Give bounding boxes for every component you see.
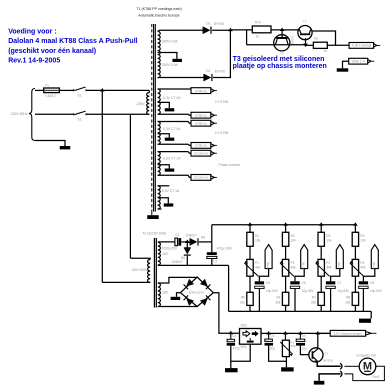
svg-text:33k: 33k	[275, 300, 281, 304]
svg-text:Fan1: Fan1	[372, 375, 379, 379]
svg-text:C1: C1	[175, 233, 179, 237]
svg-text:Rev.1 14-9-2005: Rev.1 14-9-2005	[8, 57, 60, 64]
wire C2 top stub	[211, 242, 213, 252]
svg-text:C4: C4	[270, 334, 274, 338]
wire pot to R5	[249, 276, 251, 292]
transformer T1 heater winding 6,3V CT 1A (4)	[158, 186, 161, 209]
transformer T1 core	[153, 24, 155, 212]
connector bias test point ch1	[265, 245, 272, 269]
wire bias negative rail	[212, 224, 356, 226]
node D6 tap	[185, 240, 190, 244]
wire T3 base stub	[305, 38, 307, 45]
svg-text:R3: R3	[326, 234, 330, 238]
svg-text:330V 0,9A: 330V 0,9A	[162, 40, 179, 44]
svg-text:Computer Fan: Computer Fan	[356, 353, 377, 357]
svg-text:C5: C5	[266, 281, 270, 285]
resistor R8 33k	[352, 292, 358, 305]
wire C8 to gnd rail	[362, 288, 364, 311]
wire L from brace to fuse	[35, 89, 44, 91]
svg-text:33k: 33k	[345, 300, 351, 304]
ground 330V center tap	[172, 59, 182, 62]
wire heater3 top to arrow	[158, 152, 191, 154]
connector GND output arrow	[349, 58, 368, 64]
svg-text:12V hulpspanningen: 12V hulpspanningen	[334, 332, 362, 336]
svg-text:1k: 1k	[324, 49, 328, 53]
wire R8 to output	[327, 44, 349, 46]
node L junction	[100, 88, 105, 92]
capacitor C7 10u 63V	[326, 281, 335, 284]
wire D8 to bias node	[199, 241, 212, 243]
svg-text:10µ 63V: 10µ 63V	[370, 289, 383, 293]
svg-text:plaatje op chassis monteren: plaatje op chassis monteren	[233, 63, 327, 70]
wire heater2 top to arrow	[158, 122, 191, 124]
node HT junction	[228, 28, 233, 32]
diode D2 BYV96	[203, 74, 204, 81]
resistor R4 10k	[354, 225, 356, 233]
svg-text:P3: P3	[326, 261, 330, 265]
resistor R2 10k	[285, 225, 287, 233]
wire base feed drop	[246, 30, 248, 45]
bridge diode lower-left	[183, 295, 194, 306]
transformer T1 heater winding 6,3V CT 4A (1)	[158, 89, 161, 114]
transformer T1 heater winding 6,3V CT 4A (2)	[158, 122, 161, 145]
svg-text:R7: R7	[312, 296, 316, 300]
wire VR1 out rail	[261, 332, 331, 334]
ground heater4 CT	[164, 203, 174, 206]
wire D1 to node HT	[212, 29, 230, 31]
svg-text:10µ 63V: 10µ 63V	[302, 289, 315, 293]
bridge rectifier B40C1500 outline	[180, 277, 213, 307]
node bias rail junction ch1	[248, 222, 253, 226]
svg-text:ECC99 (4): ECC99 (4)	[194, 152, 208, 156]
svg-text:ECC99 (4): ECC99 (4)	[194, 176, 208, 180]
svg-text:10k: 10k	[291, 239, 297, 243]
wire pot to R6	[285, 276, 287, 292]
svg-text:+UB 1 kanaal: +UB 1 kanaal	[351, 44, 371, 48]
svg-text:Phase inverter: Phase inverter	[219, 163, 242, 167]
transformer T2 secondary 18V (2)	[158, 283, 161, 306]
svg-text:Dalolan 4 maal KT88 Class A Pu: Dalolan 4 maal KT88 Class A Push-Pull	[8, 38, 137, 45]
ground bridge left vertex	[171, 297, 181, 300]
svg-text:Voeding voor :: Voeding voor :	[8, 29, 56, 36]
potentiometer P2	[282, 259, 288, 276]
wire test point to wiper node	[331, 269, 340, 282]
wire C7 to gnd rail	[330, 288, 332, 311]
svg-text:R4: R4	[360, 234, 364, 238]
switch S1a	[74, 87, 85, 91]
transistor T1 BD139	[309, 348, 323, 362]
svg-text:P4: P4	[360, 261, 364, 265]
potentiometer P3	[318, 259, 324, 276]
connector ECC99 heater arrow 5	[191, 150, 211, 156]
transistor T3 (driver, upper)	[298, 25, 312, 39]
svg-text:2 x KT88: 2 x KT88	[215, 131, 229, 135]
wire gnd rail to ground	[370, 311, 372, 318]
wire R6 to gnd rail	[285, 305, 287, 311]
node collector junction	[316, 331, 321, 335]
svg-text:33k: 33k	[311, 300, 317, 304]
svg-text:10k: 10k	[326, 239, 332, 243]
wire T1 emitter to fan pin	[317, 362, 340, 367]
wire T2 sec2 bottom to bridge	[158, 306, 197, 308]
node bias rail junction ch4	[353, 222, 358, 226]
wire T1 collector	[317, 333, 319, 348]
capacitor C8 10u 63V	[359, 281, 368, 284]
ground fan	[314, 381, 325, 385]
svg-text:6,3V CT 4A: 6,3V CT 4A	[163, 127, 181, 131]
svg-text:T1 (KT88 PP voedings trafo): T1 (KT88 PP voedings trafo)	[136, 7, 181, 11]
wire switch to node L	[86, 89, 102, 91]
connector KT88 heater arrow 3	[191, 120, 211, 126]
svg-text:(geschikt voor één kanaal): (geschikt voor één kanaal)	[8, 48, 96, 55]
resistor R7 33k	[318, 292, 324, 305]
svg-text:2 x KT88: 2 x KT88	[215, 100, 229, 104]
wire base node to R8	[306, 44, 314, 46]
motor M computer fan	[359, 358, 376, 375]
capacitor C6 10u 63V	[290, 281, 299, 284]
svg-text:C8: C8	[370, 281, 374, 285]
wire pot P5 bottom to ground	[285, 357, 287, 368]
transformer T2 primary	[148, 260, 151, 283]
svg-text:18V: 18V	[162, 290, 169, 294]
svg-text:R70: R70	[255, 20, 261, 24]
wire heater2 CT	[158, 134, 170, 138]
svg-text:C6: C6	[302, 334, 306, 338]
capacitor C5 10u 63V	[255, 281, 264, 284]
bridge diode upper-right	[200, 279, 211, 290]
svg-text:6,3V CT 1A: 6,3V CT 1A	[163, 157, 181, 161]
node pot P5 junction	[283, 331, 288, 335]
svg-text:T1: T1	[325, 351, 329, 355]
wire heater2 bottom to arrow	[158, 144, 191, 145]
regulator VR1 7812	[240, 329, 262, 345]
potentiometer P4	[352, 259, 358, 276]
capacitor C1 1000u 50V	[175, 238, 178, 246]
resistor R3 10k	[320, 225, 322, 233]
svg-text:R8: R8	[314, 37, 318, 41]
svg-text:BD139: BD139	[324, 359, 334, 363]
wire pot to R8	[354, 276, 356, 292]
wire 330V bottom to D2	[158, 77, 205, 79]
wire R5 to gnd rail	[249, 305, 251, 311]
wire pot to R7	[320, 276, 322, 292]
wire bias lower rail	[158, 264, 229, 266]
wire bias ground rail	[229, 310, 372, 312]
svg-text:T2 (2x18V 6VA): T2 (2x18V 6VA)	[142, 231, 166, 235]
connector KT88 heater arrow 4	[191, 143, 211, 149]
transistor T2 (pass, lower)	[274, 35, 290, 51]
svg-text:B40C1500: B40C1500	[189, 290, 204, 294]
svg-text:2N3055: 2N3055	[291, 35, 295, 45]
connector bias test point ch4	[371, 245, 378, 269]
wire test point to wiper node	[259, 269, 268, 282]
svg-text:C7: C7	[337, 281, 341, 285]
fuse F1	[44, 88, 60, 93]
potentiometer P1	[247, 259, 253, 276]
svg-text:D2: D2	[206, 69, 210, 73]
svg-text:KT88 (2): KT88 (2)	[195, 89, 207, 93]
wire T2 sec1 top to C1	[158, 241, 175, 243]
transformer T2 core	[153, 238, 155, 308]
svg-text:6,3V CT 4A: 6,3V CT 4A	[163, 96, 181, 100]
svg-text:470µ 100V: 470µ 100V	[217, 247, 233, 251]
svg-text:KT88: KT88	[266, 262, 270, 269]
wire emitter chord	[247, 44, 306, 46]
wire motor return	[344, 366, 384, 380]
wire L to T1 primary top	[102, 89, 149, 91]
wire heater4 bottom stub	[158, 208, 162, 210]
svg-text:T2: T2	[280, 51, 284, 55]
wire bias node up to bias rail	[211, 225, 213, 242]
svg-text:6,3V CT 1A: 6,3V CT 1A	[162, 189, 180, 193]
wire D2 to HT rail	[213, 30, 231, 77]
ground heater3 CT	[165, 169, 175, 172]
svg-text:KT88 (2): KT88 (2)	[195, 144, 207, 148]
diode D8 1N4007	[190, 238, 191, 245]
node C4 junction	[266, 331, 271, 335]
wire C3 to ground	[230, 346, 232, 368]
svg-text:KT88: KT88	[372, 262, 376, 269]
ground heater1 CT	[165, 108, 175, 111]
svg-text:R5: R5	[241, 296, 245, 300]
ground T1 core screen	[147, 215, 159, 219]
wire N tap down to T2	[129, 114, 131, 258]
resistor R8 (regulator)	[313, 42, 327, 48]
wire test point to wiper node	[363, 269, 374, 282]
svg-text:KT88: KT88	[337, 262, 341, 269]
ground heater2 CT	[165, 138, 175, 141]
svg-text:10µ 63V: 10µ 63V	[266, 289, 279, 293]
svg-text:0,63A T: 0,63A T	[45, 94, 56, 98]
capacitor C2 470u 100V	[207, 252, 217, 255]
svg-text:BYV96: BYV96	[215, 69, 225, 73]
svg-text:10µ 63V: 10µ 63V	[337, 289, 350, 293]
svg-text:D8: D8	[201, 236, 205, 240]
svg-text:R2: R2	[291, 234, 295, 238]
svg-text:R8: R8	[346, 296, 350, 300]
wire bridge output	[213, 293, 239, 334]
wire C6 to gnd rail	[294, 288, 296, 311]
diode D1 BYV96	[203, 27, 204, 34]
wire bridge left to ground	[177, 293, 181, 297]
ground C3	[225, 368, 238, 372]
wire heater1 CT	[158, 102, 170, 108]
wire lower rail down to gnd rail	[228, 265, 230, 311]
transformer T1 secondary 330V winding	[158, 31, 161, 77]
switch S1b	[74, 111, 85, 115]
wire heater4 CT	[158, 198, 169, 204]
wire R8 to gnd rail	[354, 305, 356, 311]
svg-text:7812: 7812	[240, 324, 247, 328]
potentiometer P5 10k	[284, 333, 286, 340]
svg-text:D1: D1	[206, 22, 210, 26]
svg-text:18V: 18V	[162, 252, 169, 256]
svg-text:BYV96: BYV96	[214, 22, 224, 26]
wire rail to 12V arrow	[318, 332, 331, 334]
svg-text:230V 50Hz: 230V 50Hz	[132, 268, 149, 272]
svg-text:P2: P2	[291, 261, 295, 265]
wire heater3 bottom to arrow	[158, 175, 191, 177]
resistor R5 33k	[247, 292, 253, 305]
connector KT88 heater arrow 2	[191, 112, 211, 118]
transformer T1 primary 230V	[147, 93, 150, 115]
wire test point to wiper node	[295, 269, 304, 282]
svg-text:40k: 40k	[360, 266, 366, 270]
svg-text:1N4007: 1N4007	[172, 260, 183, 264]
wire GND arrow to ground	[343, 61, 349, 68]
svg-text:KT88 (2): KT88 (2)	[195, 122, 207, 126]
connector fan pin 2	[340, 371, 342, 377]
svg-text:C3: C3	[232, 334, 236, 338]
wire fuse to switch	[59, 89, 73, 91]
svg-text:10k: 10k	[255, 239, 261, 243]
svg-text:1N4007: 1N4007	[186, 233, 197, 237]
wire N to T1 primary bottom	[86, 113, 149, 115]
svg-text:KT88 (2): KT88 (2)	[195, 114, 207, 118]
bridge diode lower-right	[200, 295, 211, 306]
ground of GND connector	[337, 68, 349, 71]
svg-text:10µ: 10µ	[302, 347, 307, 351]
connector +UB output arrow	[349, 43, 374, 49]
svg-text:230V: 230V	[137, 102, 146, 106]
node C5reg junction	[298, 331, 303, 335]
ground mains PE	[60, 146, 71, 149]
wire HT to R70	[230, 29, 252, 31]
svg-text:VR1: VR1	[240, 345, 246, 349]
capacitor C6reg 10u	[299, 333, 301, 339]
wire fan pin2 to ground	[319, 374, 341, 381]
bridge diode upper-left	[183, 279, 194, 290]
wire C5 to gnd rail	[258, 288, 260, 311]
svg-text:R1: R1	[255, 234, 259, 238]
svg-text:C6: C6	[302, 281, 306, 285]
svg-text:C2: C2	[213, 260, 217, 264]
ground bias rail	[359, 319, 371, 323]
wire C4 down	[269, 346, 287, 362]
connector ECC99 heater arrow 6	[191, 175, 211, 181]
wire 330V center tap	[158, 53, 177, 59]
wire T2 primary top feed	[130, 258, 150, 259]
wire PE to ground	[35, 141, 65, 147]
wire N from brace	[35, 113, 73, 115]
svg-text:S1: S1	[78, 118, 82, 122]
svg-text:R6: R6	[276, 296, 280, 300]
svg-text:330V 0,9A: 330V 0,9A	[162, 63, 179, 67]
capacitor C4 100u	[268, 333, 270, 339]
svg-text:470µ: 470µ	[233, 346, 240, 350]
wire R2 to pot	[285, 246, 287, 260]
svg-text:1k: 1k	[256, 34, 260, 38]
svg-text:P1: P1	[255, 261, 259, 265]
resistor R6 33k	[282, 292, 288, 305]
connector bias test point ch2	[301, 245, 308, 269]
svg-text:KT88: KT88	[302, 262, 306, 269]
connector 12V hulpspanningen arrow	[330, 330, 365, 336]
svg-text:230V 50Hz: 230V 50Hz	[11, 112, 28, 116]
wire D6 to lower rail	[186, 256, 188, 266]
svg-text:10k: 10k	[360, 239, 366, 243]
wire R1 to pot	[249, 246, 251, 260]
wire T2 primary bottom feed	[102, 281, 150, 283]
transformer T1 heater winding 6,3V CT 1A (3)	[158, 152, 161, 176]
svg-text:F1: F1	[45, 84, 49, 88]
wire heater1 bottom to arrow	[158, 113, 191, 116]
node T3 base junction	[303, 44, 308, 48]
svg-text:T3: T3	[303, 19, 307, 23]
wire L down to T2	[101, 90, 103, 282]
svg-text:GND 1-4: GND 1-4	[352, 60, 365, 64]
wire C1 to D8	[181, 241, 190, 243]
connector KT88 heater arrow 1	[191, 88, 211, 94]
ground C4/P5	[281, 367, 294, 371]
svg-text:Automatic Electric Europe: Automatic Electric Europe	[138, 13, 179, 17]
wire R4 to pot	[354, 246, 356, 260]
wire heater1 top to arrow	[158, 88, 191, 90]
wire R70 to T3 base node	[271, 29, 300, 31]
transformer T2 secondary 18V (1)	[158, 242, 161, 265]
wire heater4 top stub	[158, 185, 170, 187]
resistor R1 10k	[249, 225, 251, 233]
node T2 top stub	[280, 28, 285, 32]
node bias rail junction ch2	[283, 222, 288, 226]
node bias rail junction ch3	[319, 222, 324, 226]
svg-text:33k: 33k	[240, 300, 246, 304]
svg-text:40k: 40k	[255, 266, 261, 270]
svg-text:T3 geisoleerd met siliconen: T3 geisoleerd met siliconen	[233, 56, 325, 63]
diode D6 1N4007	[186, 242, 188, 249]
node C3 junction	[229, 331, 234, 335]
svg-text:S1: S1	[78, 94, 82, 98]
svg-text:1000µ 50V: 1000µ 50V	[162, 247, 178, 251]
svg-text:40k: 40k	[291, 266, 297, 270]
wire R3 to pot	[320, 246, 322, 260]
wire T3 emitter out	[312, 31, 336, 45]
wire heater3 CT	[158, 165, 170, 169]
svg-text:40k: 40k	[326, 266, 332, 270]
resistor R70	[252, 26, 271, 33]
capacitor C3 470u	[230, 333, 232, 339]
wire R7 to gnd rail	[320, 305, 322, 311]
wire VR1 gnd pin	[231, 344, 250, 361]
wire C2 bottom stub	[211, 259, 213, 266]
svg-text:10k: 10k	[291, 344, 296, 348]
wire fan pin1 to motor	[344, 365, 359, 367]
wire C6 to base	[300, 346, 309, 355]
connector fan pin 1	[340, 363, 342, 369]
wire T2 sec2 top to bridge	[158, 277, 197, 283]
connector bias test point ch3	[336, 245, 343, 269]
